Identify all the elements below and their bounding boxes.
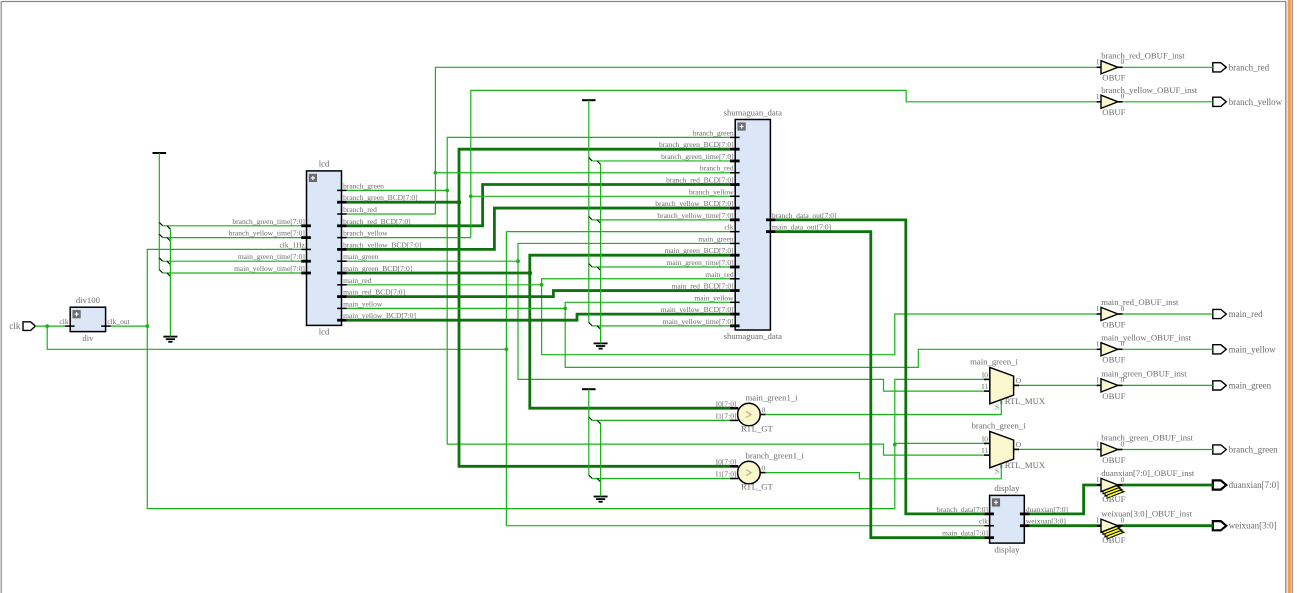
wire branch_yellow: lcd output to track: [347, 237, 471, 239]
pin branch_data_out[7:0] (output) of shumaguan_data: [766, 211, 837, 220]
pin main_red (output) of lcd: [337, 276, 372, 285]
wire branch_green OBUF to port: [1123, 449, 1213, 451]
wire main_red: up into shumaguan input: [542, 279, 730, 285]
svg-text:0: 0: [1121, 57, 1125, 66]
svg-text:0: 0: [1121, 339, 1125, 348]
svg-text:shumaguan_data: shumaguan_data: [724, 331, 783, 341]
svg-text:main_red: main_red: [1229, 309, 1263, 319]
wire constant into main_green1_i I1: [592, 419, 730, 421]
svg-text:branch_yellow_time[7:0]: branch_yellow_time[7:0]: [229, 229, 305, 238]
output buffer branch_yellow_OBUF_inst (OBUF): [1101, 85, 1198, 117]
svg-text:0: 0: [762, 463, 766, 472]
wire VCC rail for shumaguan time constants: [588, 100, 590, 322]
svg-text:I1[7:0]: I1[7:0]: [716, 412, 737, 421]
bus tap VCC to shumaguan main_yellow_time[7:0]: [589, 322, 592, 325]
pin main_red_BCD[7:0] (output) of lcd: [337, 288, 405, 297]
svg-text:clk: clk: [59, 317, 68, 326]
svg-text:clk: clk: [724, 223, 733, 232]
svg-text:branch_green: branch_green: [343, 181, 384, 190]
svg-text:branch_yellow_time[7:0]: branch_yellow_time[7:0]: [657, 211, 733, 220]
pin 0 (output) of branch_green_OBUF_inst: [1118, 439, 1125, 449]
wire VCC rail for comparator constants: [588, 389, 590, 475]
pin I of branch_red_OBUF_inst: [1097, 57, 1102, 67]
wire main_yellow: up into shumaguan input: [565, 302, 730, 308]
output port duanxian[7:0]: [1213, 480, 1279, 490]
svg-text:main_yellow: main_yellow: [694, 293, 734, 302]
junction branch_red at shumaguan branch: [434, 171, 438, 175]
comparator branch_green1_i (RTL_GT): [738, 461, 774, 491]
output buffer main_yellow_OBUF_inst (OBUF): [1101, 332, 1192, 364]
pin main_green_time[7:0] (input) of shumaguan_data: [667, 258, 740, 267]
svg-text:RTL_MUX: RTL_MUX: [1005, 460, 1046, 470]
wire main_green1 output to main mux select: [766, 400, 1002, 415]
output port main_yellow: [1213, 344, 1276, 354]
wire main_green_time[7:0] into lcd: [163, 260, 302, 262]
junction main_green_BCD: [528, 271, 533, 276]
svg-text:branch_yellow: branch_yellow: [689, 187, 734, 196]
pin duanxian[7:0] (output) of display: [1020, 505, 1068, 514]
bus tap VCC to main_green_time[7:0]: [159, 258, 162, 261]
bus branch_yellow_BCD: lcd to shumaguan: [347, 208, 730, 249]
svg-text:S: S: [995, 403, 999, 412]
wire branch_red OBUF to port: [1123, 66, 1213, 68]
pin branch_yellow_time[7:0] (input) of shumaguan_data: [657, 211, 739, 220]
svg-text:main_green_i: main_green_i: [970, 356, 1018, 366]
svg-text:div: div: [82, 333, 94, 343]
wire shumaguan branch_yellow_time[7:0] input: [592, 219, 730, 221]
wire branch_yellow: up to rail, jog, to OBUF: [471, 90, 1097, 237]
svg-text:branch_green_time[7:0]: branch_green_time[7:0]: [232, 217, 304, 226]
multiplexer main_green_i (RTL_MUX): [990, 367, 1046, 406]
bus tap GND from shumaguan main_yellow_time[7:0]: [597, 326, 600, 329]
output buffer duanxian[7:0]_OBUF_inst (OBUF): [1101, 468, 1195, 504]
svg-text:OBUF: OBUF: [1102, 535, 1125, 545]
svg-text:RTL_GT: RTL_GT: [741, 481, 774, 491]
bus tap VCC to branch_green_time[7:0]: [159, 222, 162, 225]
wire branch_red: lcd output to track: [347, 213, 436, 215]
wire GND rail for comparator constants: [600, 424, 602, 497]
svg-text:lcd: lcd: [319, 327, 330, 337]
wire main_green: up to shumaguan input: [518, 243, 730, 261]
pin branch_green (input) of shumaguan_data: [693, 128, 740, 137]
svg-text:branch_green: branch_green: [693, 128, 734, 137]
pin main_yellow (output) of lcd: [337, 299, 383, 308]
svg-text:I0: I0: [982, 370, 988, 379]
svg-text:duanxian[7:0]: duanxian[7:0]: [1229, 480, 1279, 490]
svg-text:branch_green1_i: branch_green1_i: [746, 451, 805, 461]
bus weixuan OBUF to port: [1123, 524, 1213, 527]
pin branch_green (output) of lcd: [337, 181, 384, 190]
pin I1 of main_green_i: [982, 382, 990, 391]
pin 0 (output) of main_red_OBUF_inst: [1118, 304, 1125, 314]
svg-text:OBUF: OBUF: [1102, 355, 1125, 365]
svg-text:OBUF: OBUF: [1102, 455, 1125, 465]
pin I1[7:0] of main_green1_i: [716, 412, 739, 421]
pin branch_red (output) of lcd: [337, 205, 377, 214]
junction clk_out at mux feed column: [893, 443, 897, 447]
svg-text:0: 0: [1121, 92, 1125, 101]
output buffer main_green_OBUF_inst (OBUF): [1101, 368, 1187, 400]
wire shumaguan branch_green_time[7:0] input: [592, 160, 730, 162]
wire clk_out: down and across bottom to mux area: [147, 326, 895, 509]
wire main_green: lcd output to track: [347, 260, 518, 262]
bus tap GND from main_green_time[7:0]: [167, 261, 170, 264]
wire branch_green_time[7:0] into lcd: [163, 225, 302, 227]
output buffer branch_green_OBUF_inst (OBUF): [1101, 433, 1193, 465]
wire clk: into display clk pin: [506, 525, 984, 527]
bus tap VCC to branch_yellow_time[7:0]: [159, 234, 162, 237]
wire main_yellow: lcd output to track: [347, 307, 565, 309]
svg-text:clk_out: clk_out: [107, 317, 130, 326]
bus main_red_BCD: lcd to shumaguan: [347, 291, 730, 297]
svg-text:weixuan[3:0]: weixuan[3:0]: [1229, 521, 1277, 531]
svg-text:main_yellow_time[7:0]: main_yellow_time[7:0]: [234, 264, 305, 273]
junction clk on vertical distribution column: [505, 347, 509, 351]
bus main_green_BCD: lcd output to track: [347, 272, 530, 275]
svg-text:main_red_OBUF_inst: main_red_OBUF_inst: [1101, 297, 1179, 307]
pin clk_1Hz (input) of lcd: [279, 240, 310, 249]
label branch_green1_i: [746, 451, 805, 461]
module display (display) block: [990, 483, 1025, 554]
wire GND rail for shumaguan time constants: [600, 164, 602, 343]
pin 0 (output) of branch_green1_i: [760, 463, 766, 472]
pin I of main_green_OBUF_inst: [1097, 375, 1102, 385]
bus tap VCC to branch_green1_i I1: [589, 475, 592, 478]
pin I of duanxian[7:0]_OBUF_inst: [1097, 475, 1102, 485]
pin branch_green_BCD[7:0] (input) of shumaguan_data: [659, 140, 740, 149]
ground GND symbol (shumaguan time constants): [594, 343, 608, 348]
wire main_green: mux output to OBUF: [1019, 384, 1096, 386]
bus tap VCC to main_yellow_time[7:0]: [159, 270, 162, 273]
svg-text:I1: I1: [982, 382, 988, 391]
wire branch_green: down and across to branch mux I1: [447, 190, 984, 455]
svg-text:main_yellow: main_yellow: [343, 299, 383, 308]
junction clk_out: [145, 324, 149, 328]
pin branch_green_BCD[7:0] (output) of lcd: [337, 193, 418, 202]
svg-text:0: 0: [1121, 475, 1125, 484]
wire main_red: down, across, up to OBUF: [542, 285, 1097, 355]
svg-text:O: O: [1016, 376, 1022, 385]
pin main_red_BCD[7:0] (input) of shumaguan_data: [672, 282, 740, 291]
output port branch_yellow: [1213, 97, 1283, 107]
pin main_yellow_BCD[7:0] (output) of lcd: [337, 311, 416, 320]
pin branch_green_time[7:0] (input) of shumaguan_data: [661, 152, 739, 161]
svg-text:main_green1_i: main_green1_i: [746, 392, 799, 402]
svg-text:main_green: main_green: [1229, 380, 1272, 390]
multiplexer branch_green_i (RTL_MUX): [990, 431, 1046, 470]
bus tap VCC to shumaguan main_green_time[7:0]: [589, 264, 592, 267]
junction main_green: [516, 259, 520, 263]
module lcd (lcd) block: [307, 159, 342, 337]
pin branch_data[7:0] (input) of display: [937, 505, 994, 514]
wire clk: port to div100 clk: [35, 325, 65, 327]
label branch_green_i: [972, 421, 1027, 431]
ground GND symbol (comparator constants): [594, 497, 608, 502]
pin branch_yellow_time[7:0] (input) of lcd: [229, 229, 311, 238]
svg-text:branch_red: branch_red: [1229, 62, 1270, 72]
pin 0 (output) of main_yellow_OBUF_inst: [1118, 339, 1125, 349]
wire GND rail for lcd time constants: [169, 229, 171, 336]
svg-text:branch_yellow: branch_yellow: [1229, 97, 1283, 107]
svg-text:O: O: [1016, 440, 1022, 449]
pin I of branch_yellow_OBUF_inst: [1097, 92, 1102, 102]
output buffer branch_red_OBUF_inst (OBUF): [1101, 50, 1185, 82]
pin weixuan[3:0] (output) of display: [1020, 517, 1066, 526]
pin branch_yellow (output) of lcd: [337, 229, 388, 238]
svg-text:OBUF: OBUF: [1102, 73, 1125, 83]
pin branch_yellow (input) of shumaguan_data: [689, 187, 740, 196]
pin 0 (output) of main_green_OBUF_inst: [1118, 375, 1125, 385]
svg-text:0: 0: [762, 405, 766, 414]
pin 0 (output) of branch_yellow_OBUF_inst: [1118, 92, 1125, 102]
svg-text:I0: I0: [982, 434, 988, 443]
pin main_green_time[7:0] (input) of lcd: [238, 252, 311, 261]
junction clk at div100 input: [45, 324, 49, 328]
svg-text:shumaguan_data: shumaguan_data: [724, 107, 783, 117]
svg-text:RTL_MUX: RTL_MUX: [1005, 396, 1046, 406]
bus tap GND from main_yellow_time[7:0]: [167, 273, 170, 276]
pin clk (input) of shumaguan_data: [724, 223, 739, 232]
pin I of main_red_OBUF_inst: [1097, 304, 1102, 314]
pin I0[7:0] of branch_green1_i: [716, 458, 739, 467]
bus tap VCC to shumaguan branch_yellow_time[7:0]: [589, 216, 592, 219]
output port branch_green: [1213, 445, 1278, 455]
bus tap GND from branch_green_time[7:0]: [167, 226, 170, 229]
wire main_yellow OBUF to port: [1123, 348, 1213, 350]
bus main_data_out: shumaguan to display: [776, 232, 985, 538]
wire branch_green: mux output to OBUF: [1019, 448, 1096, 450]
wire main_yellow: down, across, up to OBUF: [565, 308, 1096, 367]
svg-text:branch_red_OBUF_inst: branch_red_OBUF_inst: [1101, 50, 1185, 60]
bus main_green_BCD: up to shumaguan input: [530, 255, 730, 273]
pin I of branch_green_OBUF_inst: [1097, 440, 1102, 450]
svg-text:duanxian[7:0]_OBUF_inst: duanxian[7:0]_OBUF_inst: [1101, 468, 1195, 478]
svg-text:main_green_OBUF_inst: main_green_OBUF_inst: [1101, 368, 1187, 378]
junction main_red: [540, 283, 544, 287]
pin main_yellow (input) of shumaguan_data: [694, 293, 739, 302]
junction branch_green: [445, 189, 449, 193]
bus tap GND from shumaguan branch_green_time[7:0]: [597, 161, 600, 164]
wire branch_yellow_time[7:0] into lcd: [163, 237, 302, 239]
label main_green_i: [970, 356, 1018, 366]
pin I of main_yellow_OBUF_inst: [1097, 339, 1102, 349]
svg-text:branch_green_i: branch_green_i: [972, 421, 1027, 431]
wire constant into branch_green1_i I1: [592, 478, 730, 480]
output port branch_red: [1213, 62, 1270, 72]
wire clk: into shumaguan clk pin: [506, 231, 730, 233]
bus main_yellow_BCD: lcd to shumaguan: [347, 314, 730, 320]
junction branch_yellow at shumaguan branch: [469, 194, 473, 198]
ground GND symbol (lcd time constants): [163, 337, 177, 342]
bus weixuan: display to OBUF: [1030, 524, 1097, 527]
svg-text:main_green_time[7:0]: main_green_time[7:0]: [238, 252, 305, 261]
pin clk (input) of display: [979, 517, 994, 526]
bus tap GND from branch_green1_i I1: [597, 479, 600, 482]
module shumaguan_data (shumaguan_data) block: [724, 107, 783, 341]
label main_green1_i: [746, 392, 799, 402]
svg-text:0: 0: [1121, 375, 1125, 384]
pin main_data_out[7:0] (output) of shumaguan_data: [766, 223, 831, 232]
scrollbar orange indicator: [1288, 0, 1293, 593]
pin S of main_green_i: [995, 399, 1001, 411]
svg-text:I1[7:0]: I1[7:0]: [716, 470, 737, 479]
svg-text:OBUF: OBUF: [1102, 319, 1125, 329]
pin I0 of main_green_i: [982, 370, 990, 379]
wire branch_green: up to shumaguan input: [447, 137, 730, 190]
pin S of branch_green_i: [995, 463, 1001, 475]
wire branch_red: up to top rail and across to OBUF: [435, 67, 1096, 214]
pin 0 (output) of branch_red_OBUF_inst: [1118, 57, 1125, 67]
junction branch_green_BCD: [457, 200, 462, 205]
svg-text:main_green_time[7:0]: main_green_time[7:0]: [667, 258, 734, 267]
wire branch_yellow OBUF to port: [1123, 101, 1213, 103]
power VCC symbol (shumaguan time constants): [582, 99, 596, 101]
svg-text:clk: clk: [9, 321, 20, 331]
bus duanxian OBUF to port: [1123, 484, 1213, 487]
svg-text:main_red: main_red: [705, 270, 734, 279]
svg-text:0: 0: [1121, 516, 1125, 525]
svg-text:weixuan[3:0]_OBUF_inst: weixuan[3:0]_OBUF_inst: [1101, 509, 1192, 519]
bus duanxian: display to OBUF: [1030, 485, 1097, 514]
svg-text:branch_red: branch_red: [343, 205, 377, 214]
wire clk: vertical column to shumaguan and display: [505, 232, 507, 526]
svg-text:branch_green: branch_green: [1229, 445, 1278, 455]
svg-text:clk_1Hz: clk_1Hz: [279, 240, 305, 249]
wire branch_red: into shumaguan input: [435, 172, 730, 174]
pin I1 of branch_green_i: [982, 446, 990, 455]
svg-text:RTL_GT: RTL_GT: [741, 423, 774, 433]
pin main_yellow_time[7:0] (input) of shumaguan_data: [663, 317, 740, 326]
pin I0[7:0] of main_green1_i: [716, 399, 739, 408]
output port weixuan[3:0]: [1213, 521, 1277, 531]
wire branch_green: lcd output to track: [347, 189, 447, 191]
pin main_data[7:0] (input) of display: [942, 529, 994, 538]
bus branch_green_BCD: up to shumaguan input: [459, 149, 730, 202]
pin branch_yellow_BCD[7:0] (input) of shumaguan_data: [655, 199, 739, 208]
bus tap GND from shumaguan branch_yellow_time[7:0]: [597, 220, 600, 223]
svg-text:branch_green_time[7:0]: branch_green_time[7:0]: [661, 152, 733, 161]
svg-text:main_yellow: main_yellow: [1229, 344, 1276, 354]
wire shumaguan main_green_time[7:0] input: [592, 266, 730, 268]
wire clk_out: up to main_green_i mux I0: [895, 379, 984, 444]
wire clk_out: to branch_green_i mux I0: [895, 442, 984, 444]
bus main_green_BCD: down to main comparator I0: [530, 273, 730, 408]
bus branch_green_BCD: down to branch comparator I0: [459, 202, 730, 466]
pin O of main_green_i: [1014, 376, 1022, 385]
pin main_yellow_BCD[7:0] (input) of shumaguan_data: [661, 305, 740, 314]
svg-text:I1: I1: [982, 446, 988, 455]
pin branch_red_BCD[7:0] (input) of shumaguan_data: [666, 176, 739, 185]
svg-text:display: display: [994, 544, 1020, 554]
pin O of branch_green_i: [1014, 440, 1022, 449]
pin clk (input) of div: [59, 317, 74, 326]
pin I0 of branch_green_i: [982, 434, 990, 443]
pin main_green (output) of lcd: [337, 252, 379, 261]
wire main_red: lcd output to track: [347, 284, 542, 286]
pin 0 (output) of duanxian[7:0]_OBUF_inst: [1118, 475, 1125, 485]
svg-text:0: 0: [1121, 304, 1125, 313]
svg-text:branch_green_OBUF_inst: branch_green_OBUF_inst: [1101, 433, 1193, 443]
wire clk_out: div100 to junction: [111, 325, 147, 327]
wire VCC rail for lcd time constants: [158, 153, 160, 270]
bus tap GND from branch_yellow_time[7:0]: [167, 238, 170, 241]
pin branch_red_BCD[7:0] (output) of lcd: [337, 217, 410, 226]
svg-text:clk: clk: [979, 517, 988, 526]
bus tap GND from main_green1_i I1: [597, 420, 600, 423]
pin main_green (input) of shumaguan_data: [698, 234, 739, 243]
svg-text:lcd: lcd: [319, 159, 330, 169]
wire main_green: down and across to main mux I1: [518, 261, 984, 391]
pin I1[7:0] of branch_green1_i: [716, 470, 739, 479]
output port main_green: [1213, 380, 1272, 390]
bus branch_green_BCD: lcd output to track: [347, 201, 459, 204]
power VCC symbol (comparator constants): [582, 388, 596, 390]
pin main_red (input) of shumaguan_data: [705, 270, 739, 279]
bus tap VCC to shumaguan branch_green_time[7:0]: [589, 158, 592, 161]
svg-text:S: S: [995, 467, 999, 476]
svg-text:OBUF: OBUF: [1102, 494, 1125, 504]
bus tap VCC to main_green1_i I1: [589, 417, 592, 420]
output buffer weixuan[3:0]_OBUF_inst (OBUF): [1101, 509, 1193, 545]
svg-text:OBUF: OBUF: [1102, 107, 1125, 117]
pin clk_out (output) of div: [101, 317, 130, 326]
wire main_green OBUF to port: [1123, 384, 1213, 386]
pin I of weixuan[3:0]_OBUF_inst: [1097, 516, 1102, 526]
wire branch_yellow: into shumaguan input: [471, 195, 730, 197]
svg-text:main_yellow_OBUF_inst: main_yellow_OBUF_inst: [1101, 332, 1191, 342]
pin main_green_BCD[7:0] (input) of shumaguan_data: [664, 246, 739, 255]
pin main_green_BCD[7:0] (output) of lcd: [337, 264, 412, 273]
junction main_yellow: [563, 307, 567, 311]
input port clk: [9, 321, 35, 331]
svg-text:display: display: [994, 483, 1020, 493]
wire main_yellow_time[7:0] into lcd: [163, 272, 302, 274]
pin 0 (output) of weixuan[3:0]_OBUF_inst: [1118, 516, 1125, 526]
svg-text:main_red: main_red: [343, 276, 372, 285]
pin 0 (output) of main_green1_i: [760, 405, 766, 414]
output port main_red: [1213, 309, 1263, 319]
wire branch_green1 output to branch mux select: [766, 464, 1002, 479]
bus branch_red_BCD: lcd to shumaguan: [347, 185, 730, 226]
bus branch_data_out: shumaguan to display: [776, 220, 985, 514]
comparator main_green1_i (RTL_GT): [738, 403, 774, 433]
svg-text:main_green: main_green: [343, 252, 379, 261]
svg-text:branch_red: branch_red: [700, 164, 734, 173]
wire clk_out: up to lcd clk_1Hz pin: [147, 249, 301, 326]
pin main_yellow_time[7:0] (input) of lcd: [234, 264, 311, 273]
svg-text:OBUF: OBUF: [1102, 391, 1125, 401]
wire clk: down and across to clk column: [47, 326, 506, 349]
bus tap GND from shumaguan main_green_time[7:0]: [597, 267, 600, 270]
svg-text:main_yellow_time[7:0]: main_yellow_time[7:0]: [663, 317, 734, 326]
svg-text:0: 0: [1121, 439, 1125, 448]
wire shumaguan main_yellow_time[7:0] input: [592, 325, 730, 327]
pin branch_yellow_BCD[7:0] (output) of lcd: [337, 240, 421, 249]
pin branch_red (input) of shumaguan_data: [700, 164, 740, 173]
wire main_red OBUF to port: [1123, 313, 1213, 315]
svg-text:div100: div100: [76, 295, 101, 305]
svg-text:main_green: main_green: [698, 234, 734, 243]
svg-text:branch_yellow_OBUF_inst: branch_yellow_OBUF_inst: [1101, 85, 1198, 95]
output buffer main_red_OBUF_inst (OBUF): [1101, 297, 1179, 329]
power VCC symbol (lcd time constants): [153, 152, 167, 154]
pin branch_green_time[7:0] (input) of lcd: [232, 217, 310, 226]
module div (div100) block: [70, 295, 105, 343]
svg-text:branch_yellow: branch_yellow: [343, 229, 388, 238]
